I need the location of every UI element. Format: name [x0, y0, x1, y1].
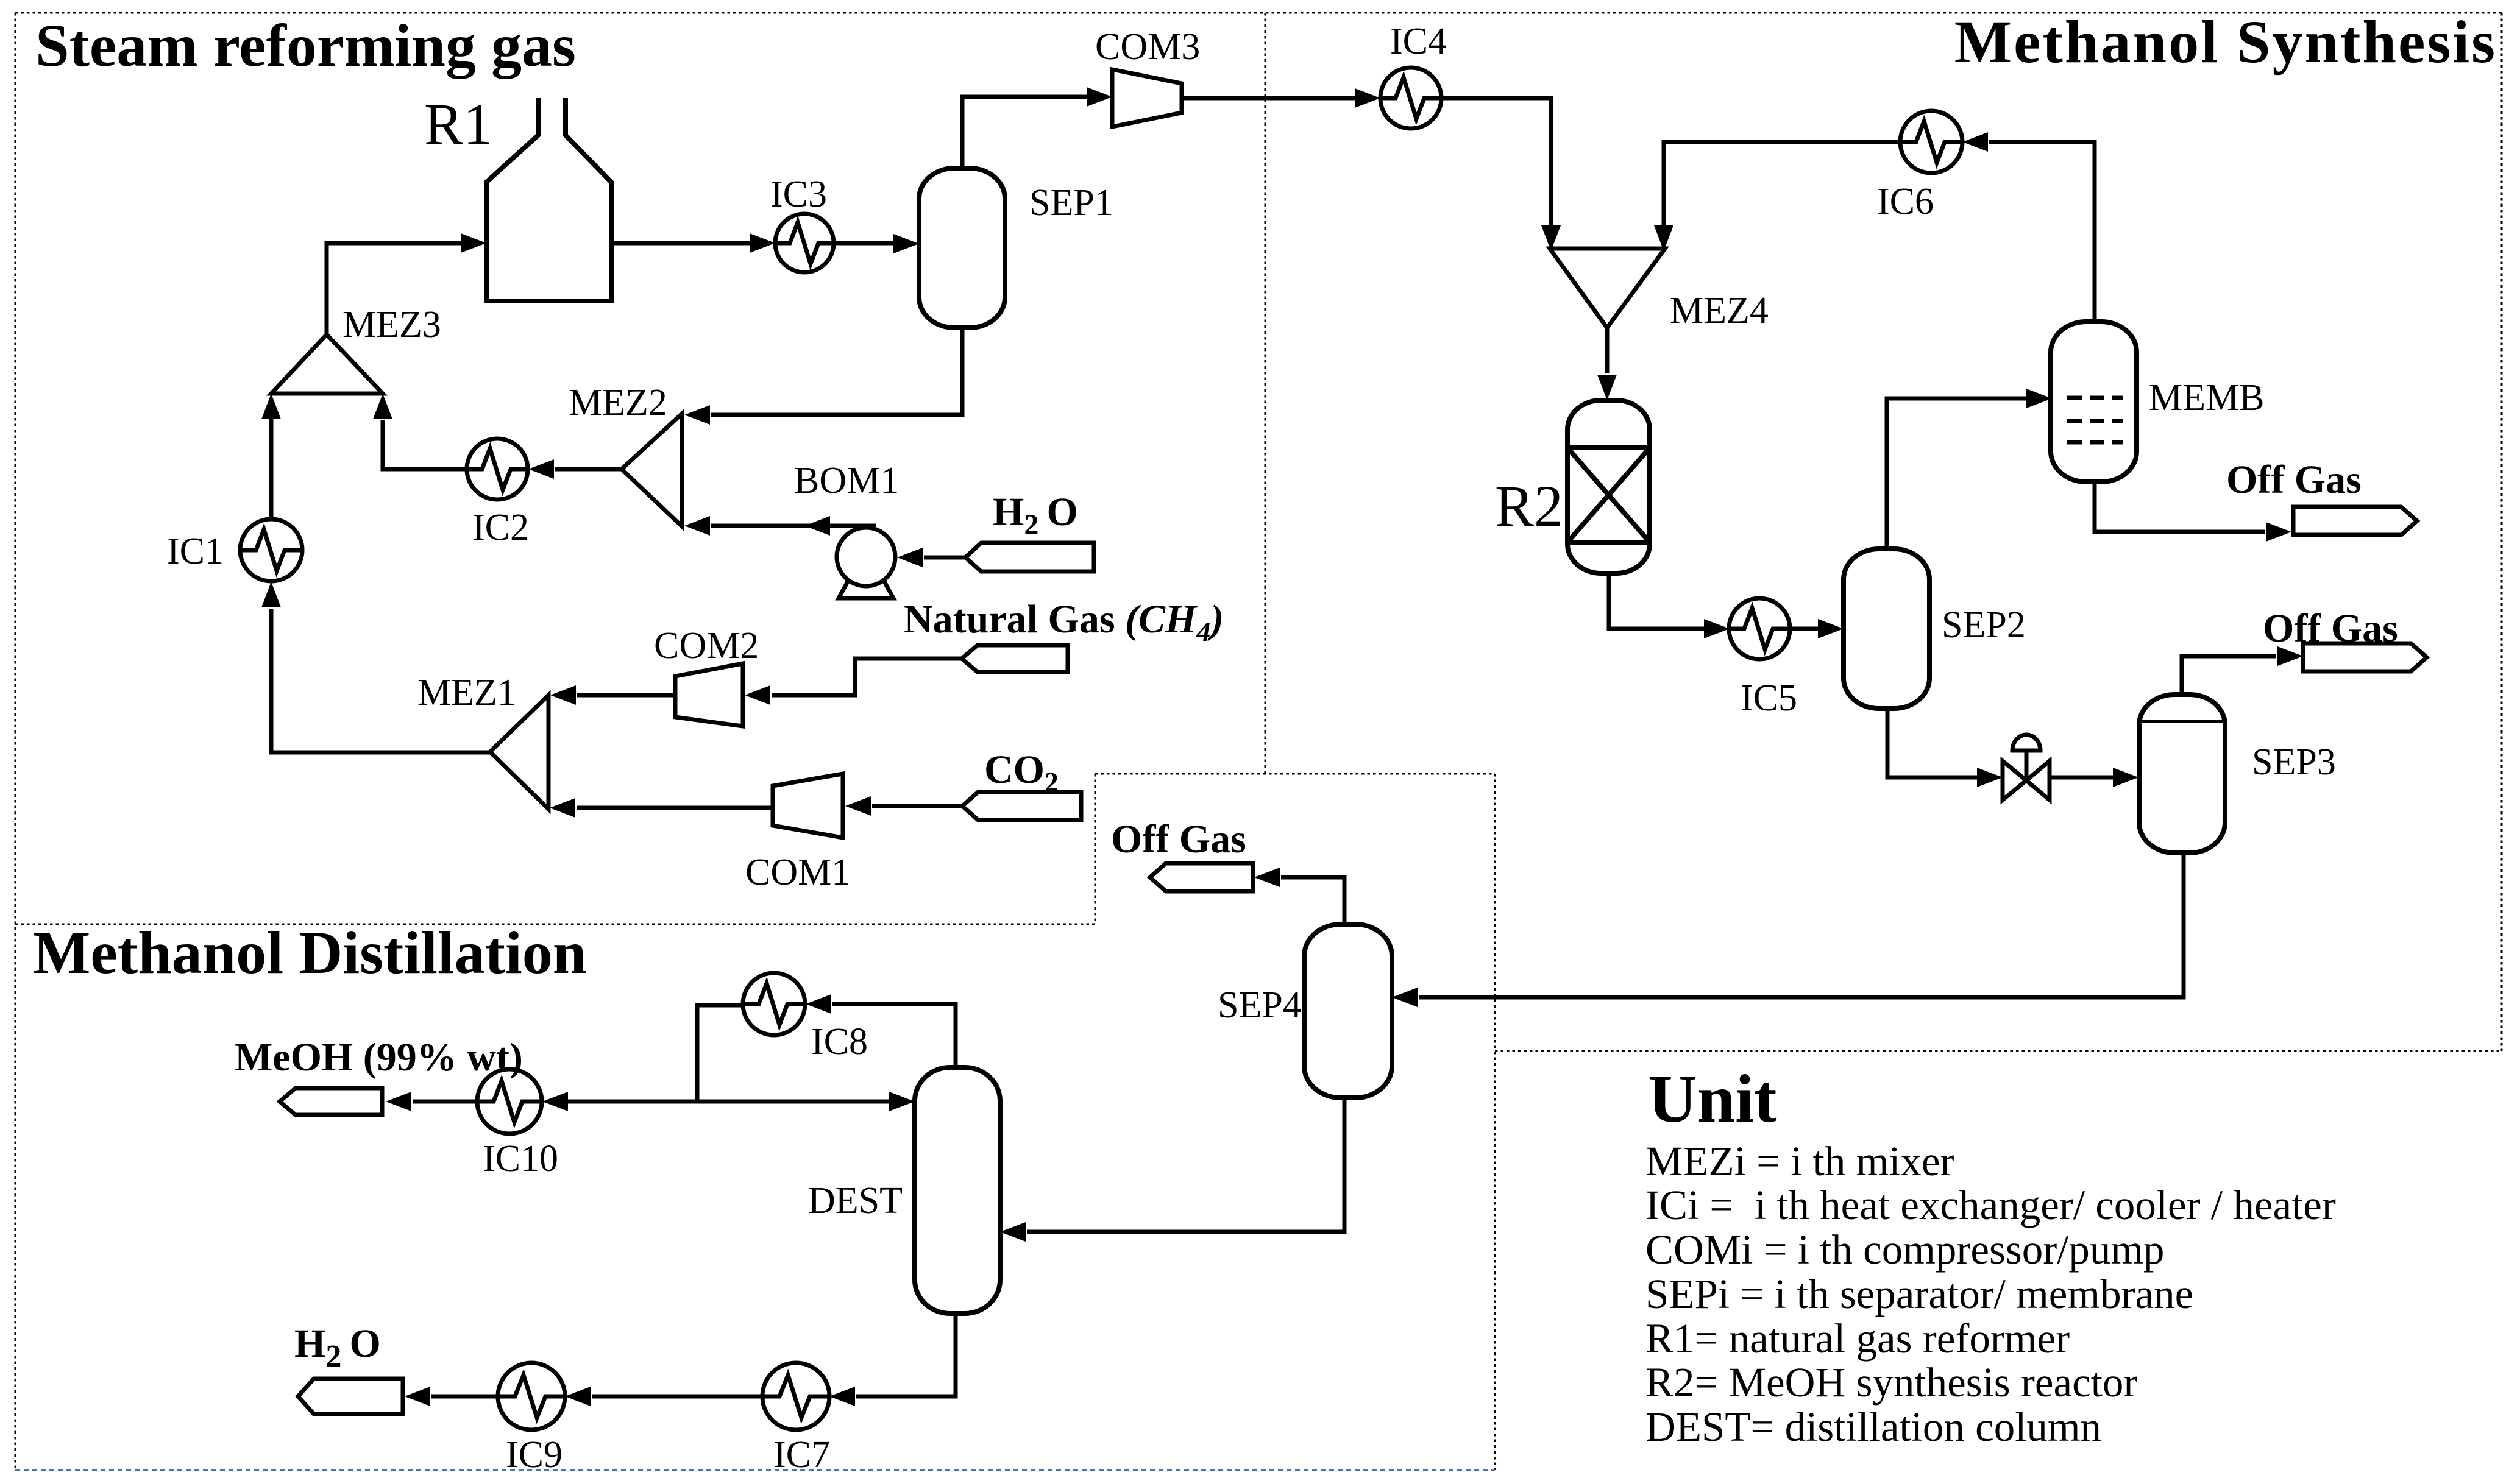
- svg-text:BOM1: BOM1: [794, 460, 899, 501]
- mixer MEZ1: [490, 695, 548, 809]
- wire DEST top to IC8: [832, 1004, 956, 1067]
- reactor R2: [1567, 400, 1650, 573]
- svg-text:COM1: COM1: [745, 852, 850, 893]
- stream output Off Gas (SEP4): [1150, 863, 1253, 891]
- svg-text:DEST: DEST: [808, 1180, 903, 1222]
- wire junction to IC10: [568, 1100, 697, 1104]
- svg-text:COM3: COM3: [1095, 26, 1200, 68]
- svg-text:Methanol Distillation: Methanol Distillation: [33, 919, 586, 986]
- reactor R1: [486, 98, 611, 301]
- svg-text:MEMB: MEMB: [2149, 377, 2264, 419]
- svg-text:ICi = i th heat exchanger/ co: ICi = i th heat exchanger/ cooler / heat…: [1645, 1182, 2336, 1228]
- separator SEP1: [919, 168, 1005, 328]
- wire SEP3 bottom to SEP4: [1419, 853, 2184, 997]
- svg-text:DEST= distillation column: DEST= distillation column: [1645, 1404, 2101, 1450]
- svg-text:IC5: IC5: [1741, 677, 1797, 719]
- svg-text:SEP1: SEP1: [1029, 182, 1113, 224]
- wire IC4 to MEZ4: [1441, 98, 1551, 225]
- stream input H2O: [965, 543, 1094, 571]
- svg-text:COM2: COM2: [654, 625, 759, 667]
- wire SEP4 top to Off Gas: [1281, 877, 1344, 924]
- pump BOM1: [837, 528, 895, 598]
- wire MEZ1 to IC1: [271, 609, 491, 752]
- svg-text:COMi = i th compressor/pump: COMi = i th compressor/pump: [1645, 1226, 2165, 1273]
- mixer MEZ3: [271, 334, 383, 394]
- compressor COM3: [1112, 69, 1182, 127]
- stream output Off Gas (MEMB): [2293, 507, 2417, 535]
- heat exchanger IC8: [743, 973, 805, 1035]
- separator SEP4: [1304, 924, 1392, 1098]
- heat exchanger IC7: [762, 1363, 829, 1430]
- wire MEZ3 to R1: [327, 243, 463, 337]
- svg-text:IC1: IC1: [167, 531, 224, 572]
- wire SEP1 bottom to MEZ2: [711, 328, 962, 415]
- stream input CO2: [962, 792, 1081, 820]
- svg-text:MEZ4: MEZ4: [1670, 290, 1769, 331]
- svg-text:IC8: IC8: [811, 1021, 868, 1063]
- wire IC3 to SEP1: [834, 241, 896, 246]
- heat exchanger IC6: [1900, 111, 1962, 173]
- mixer MEZ4: [1550, 249, 1665, 328]
- svg-text:Off Gas: Off Gas: [1111, 817, 1246, 861]
- section border distillation right: [1494, 774, 1496, 1470]
- wire IC9 to H2O out: [431, 1395, 498, 1399]
- heat exchanger IC4: [1380, 68, 1441, 129]
- membrane MEMB: [2051, 322, 2137, 482]
- wire Natural Gas to COM2: [772, 659, 962, 695]
- svg-text:SEP4: SEP4: [1218, 985, 1302, 1026]
- wire IC5 to SEP2: [1790, 627, 1819, 631]
- wire MEMB to Off Gas: [2095, 482, 2265, 532]
- wire BOM1 to MEZ2: [711, 524, 876, 528]
- section border notch top: [1095, 773, 1495, 775]
- separator SEP2: [1844, 549, 1929, 709]
- svg-text:R1: R1: [424, 91, 492, 157]
- wire valve to SEP3: [2050, 776, 2113, 780]
- wire SEP3 top to Off Gas: [2182, 656, 2276, 695]
- wire H2O to BOM1: [924, 556, 965, 560]
- compressor COM2: [675, 663, 743, 726]
- heat exchanger IC2: [467, 439, 528, 500]
- wire IC2 to MEZ3: [383, 420, 467, 469]
- wire DEST bottom to IC7: [856, 1314, 956, 1396]
- heat exchanger IC3: [775, 214, 834, 272]
- valve V1: [2003, 735, 2050, 800]
- wire SEP4 bottom to DEST: [1027, 1098, 1344, 1232]
- column DEST: [915, 1067, 1000, 1314]
- svg-text:MEZ2: MEZ2: [569, 382, 667, 423]
- compressor COM1: [773, 774, 843, 838]
- svg-text:Off Gas: Off Gas: [2263, 606, 2398, 651]
- svg-text:IC2: IC2: [472, 507, 529, 548]
- wire SEP1 top to COM3: [962, 97, 1089, 168]
- svg-text:Natural Gas (CH4): Natural Gas (CH4): [904, 597, 1224, 647]
- svg-text:R2= MeOH synthesis reactor: R2= MeOH synthesis reactor: [1645, 1359, 2137, 1406]
- section border top: [15, 12, 2502, 14]
- section border left: [15, 13, 16, 1470]
- wire COM1 to MEZ1: [577, 806, 773, 810]
- wire IC10 to MeOH: [413, 1100, 477, 1104]
- section border separator steam/synthesis: [1265, 13, 1266, 774]
- section border notch left: [1095, 774, 1096, 924]
- wire MEMB to IC6: [1989, 142, 2095, 322]
- mixer MEZ2: [622, 414, 682, 526]
- stream output H2O: [298, 1379, 403, 1414]
- stream output Off Gas (SEP3): [2303, 643, 2427, 671]
- wire IC1 to MEZ3: [269, 419, 274, 519]
- svg-text:MeOH (99% wt): MeOH (99% wt): [235, 1035, 523, 1080]
- section border bottom (blue): [15, 1469, 1495, 1471]
- section border right: [2501, 13, 2503, 1051]
- svg-text:R1= natural gas reformer: R1= natural gas reformer: [1645, 1315, 2070, 1362]
- heat exchanger IC10: [477, 1069, 542, 1134]
- heat exchanger IC9: [498, 1363, 565, 1430]
- wire MEZ4 to R2: [1605, 328, 1610, 373]
- svg-text:IC10: IC10: [483, 1138, 558, 1179]
- wire COM2 to MEZ1: [577, 693, 675, 698]
- stream output MeOH: [280, 1088, 382, 1115]
- separator SEP3: [2139, 695, 2225, 853]
- wire SEP2 bottom to valve: [1887, 709, 1977, 777]
- svg-text:IC6: IC6: [1877, 181, 1934, 222]
- svg-text:SEP3: SEP3: [2252, 741, 2336, 783]
- svg-text:MEZ3: MEZ3: [343, 304, 441, 345]
- section border synthesis bottom: [1495, 1050, 2502, 1052]
- wire IC6 to MEZ4: [1664, 142, 1901, 225]
- svg-text:IC9: IC9: [506, 1434, 563, 1476]
- svg-text:MEZi = i th mixer: MEZi = i th mixer: [1645, 1138, 1954, 1184]
- svg-text:SEP2: SEP2: [1942, 604, 2026, 646]
- wire MEZ2 to IC2: [555, 467, 622, 472]
- svg-text:IC7: IC7: [773, 1434, 830, 1476]
- wire IC7 to IC9: [592, 1395, 762, 1399]
- section border distillation top: [15, 924, 1095, 925]
- svg-text:IC3: IC3: [770, 174, 827, 215]
- wire CO2 to COM1: [872, 804, 962, 808]
- wire SEP2 top to MEMB: [1887, 398, 2026, 549]
- wire IC8 to junction: [697, 1005, 743, 1101]
- svg-text:IC4: IC4: [1390, 21, 1447, 62]
- wire R1 to IC3: [611, 241, 752, 246]
- svg-text:Off Gas: Off Gas: [2226, 458, 2362, 502]
- svg-text:Steam reforming gas: Steam reforming gas: [35, 12, 576, 79]
- svg-text:R2: R2: [1495, 473, 1563, 539]
- heat exchanger IC1: [240, 519, 302, 581]
- svg-text:MEZ1: MEZ1: [417, 672, 516, 713]
- svg-text:Unit: Unit: [1648, 1061, 1777, 1137]
- wire COM3 to IC4: [1182, 96, 1357, 101]
- stream input Natural Gas: [962, 645, 1068, 672]
- svg-text:SEPi = i th separator/ membran: SEPi = i th separator/ membrane: [1645, 1271, 2193, 1317]
- wire R2 to IC5: [1609, 573, 1704, 629]
- wire junction to DEST feed: [697, 1100, 890, 1104]
- heat exchanger IC5: [1729, 598, 1790, 659]
- svg-text:Methanol Synthesis: Methanol Synthesis: [1954, 8, 2497, 76]
